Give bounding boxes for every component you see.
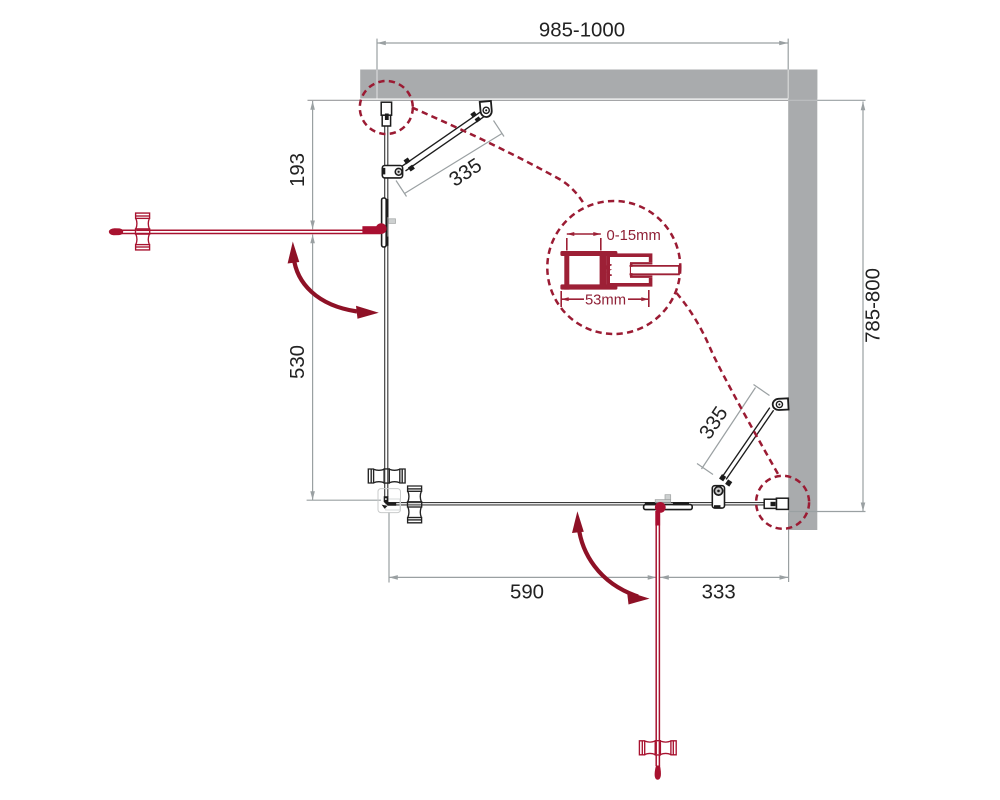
svg-text:530: 530 xyxy=(287,345,309,379)
door pivot bottom xyxy=(655,502,666,513)
left door end cap xyxy=(109,228,123,235)
svg-text:193: 193 xyxy=(287,153,309,187)
dimension 335 bottom xyxy=(697,385,770,475)
bottom fixed glass panel xyxy=(388,503,770,505)
support bar top fork teeth xyxy=(403,157,410,164)
svg-text:985-1000: 985-1000 xyxy=(539,20,625,42)
right wall xyxy=(788,70,817,531)
svg-text:785-800: 785-800 xyxy=(863,268,885,343)
left door glass xyxy=(111,230,381,233)
bottom door handle xyxy=(639,741,676,755)
support bar bottom wall bracket xyxy=(772,398,788,410)
support bar bottom fork teeth xyxy=(719,474,726,481)
top wall xyxy=(360,70,817,99)
bottom door cap xyxy=(655,511,660,526)
detail dim 53mm xyxy=(561,290,649,307)
svg-text:53mm: 53mm xyxy=(585,293,626,309)
left door handle xyxy=(136,213,150,250)
door pivot left xyxy=(376,223,387,234)
detail profile mid bar xyxy=(600,256,607,285)
svg-text:590: 590 xyxy=(510,582,544,604)
detail circle top hinge xyxy=(360,81,413,134)
right wall profile xyxy=(764,498,788,509)
dimension 785-800 xyxy=(789,100,866,511)
detail profile left wall xyxy=(564,251,569,290)
dimension 530 xyxy=(307,235,381,501)
corner connector xyxy=(384,496,397,506)
support bar top glass clamp xyxy=(382,166,402,178)
detail profile insert xyxy=(608,255,650,285)
support bar top wall bracket xyxy=(480,101,493,118)
detail glass xyxy=(631,267,679,273)
door hinge bottom xyxy=(644,495,693,510)
left fixed glass panel xyxy=(385,121,388,498)
svg-text:333: 333 xyxy=(702,582,736,604)
glass knob on left panel xyxy=(368,469,405,483)
top wall profile xyxy=(381,102,391,126)
bottom door glass xyxy=(656,511,659,766)
support bar top xyxy=(402,112,483,171)
svg-text:335: 335 xyxy=(695,403,732,444)
support bar bottom xyxy=(722,408,773,480)
wall bottom edge line xyxy=(308,99,789,101)
dimension 333 xyxy=(660,513,789,583)
left door cap xyxy=(362,226,380,233)
dimension 590 xyxy=(389,512,657,583)
detail circle corner xyxy=(756,476,809,529)
bottom door end cap xyxy=(655,766,661,780)
door hinge left xyxy=(382,198,396,247)
corner frame xyxy=(378,489,401,513)
glass knob on bottom panel xyxy=(408,486,422,523)
svg-text:335: 335 xyxy=(445,154,486,191)
svg-text:0-15mm: 0-15mm xyxy=(607,228,661,244)
support bar bottom glass clamp xyxy=(712,486,724,508)
detail circle main xyxy=(547,201,680,334)
dimension 335 top xyxy=(396,121,504,197)
detail profile top lip xyxy=(560,251,617,256)
leader line bottom xyxy=(677,293,781,478)
swing arc left xyxy=(294,257,357,312)
leader line top xyxy=(412,108,584,205)
detail dim 0-15mm xyxy=(567,234,601,251)
dimension 193 xyxy=(312,101,314,229)
detail clip xyxy=(606,265,611,275)
detail profile bottom lip xyxy=(560,284,617,289)
dimension 985-1000 xyxy=(377,39,788,70)
swing arc bottom xyxy=(579,527,638,597)
